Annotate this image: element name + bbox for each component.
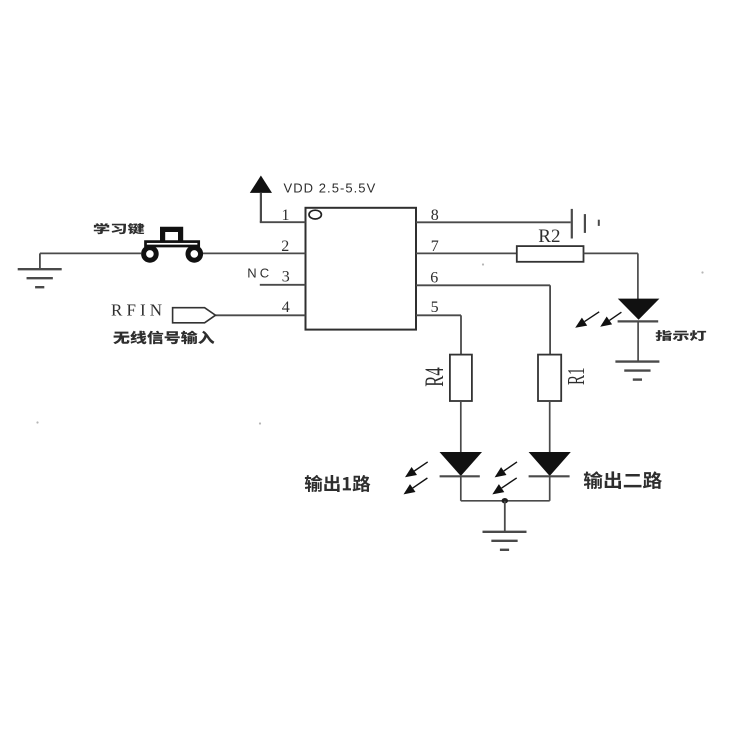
wire R4 to LED D1 bbox=[460, 401, 462, 452]
resistor R1 bbox=[538, 355, 561, 401]
svg-text:1: 1 bbox=[282, 207, 290, 224]
svg-text:2: 2 bbox=[281, 238, 289, 255]
capacitor C1 bars bbox=[572, 209, 599, 239]
RFIN input tag bbox=[173, 308, 216, 323]
wire bus to ground bbox=[504, 501, 506, 532]
svg-text:3: 3 bbox=[282, 269, 290, 286]
wire bottom bus bbox=[461, 500, 550, 502]
LED D1 output1 bbox=[440, 452, 483, 476]
wire pin4 to RFIN tag bbox=[215, 314, 305, 316]
label 无线信号输入 bbox=[113, 331, 214, 345]
svg-text:NC: NC bbox=[247, 266, 272, 281]
resistor R2 bbox=[517, 246, 584, 262]
LED D1 light arrows bbox=[404, 462, 428, 495]
ground indicator bbox=[615, 362, 659, 380]
wire R1 to LED D2 bbox=[549, 401, 551, 452]
wire pin3 stub bbox=[260, 284, 306, 286]
LED D2 output2 bbox=[529, 452, 571, 476]
wire ground drop left bbox=[39, 253, 41, 269]
pushbutton S1 bbox=[144, 229, 201, 260]
svg-text:R4: R4 bbox=[420, 367, 449, 387]
IC U1 body bbox=[306, 208, 417, 330]
svg-text:RFIN: RFIN bbox=[111, 301, 166, 320]
wire pin1 to power bbox=[260, 221, 306, 223]
wire LED D2 down bbox=[549, 476, 551, 501]
svg-text:R2: R2 bbox=[538, 226, 560, 247]
label 输出二路 bbox=[584, 471, 662, 489]
svg-text:4: 4 bbox=[282, 299, 290, 316]
wire pin5 to R4 bbox=[416, 315, 461, 355]
wire LED D1 down bbox=[460, 476, 462, 501]
svg-text:7: 7 bbox=[431, 238, 439, 255]
label 指示灯 bbox=[656, 330, 707, 341]
ground bottom bbox=[483, 532, 527, 550]
junction dot bbox=[502, 498, 508, 503]
svg-text:8: 8 bbox=[431, 207, 439, 224]
power symbol VDD arrow bbox=[250, 176, 272, 223]
wire pin2 to button bbox=[203, 252, 306, 254]
wire LED D3 to ground bbox=[637, 321, 639, 361]
wire ground to button bbox=[40, 252, 141, 254]
ground left bbox=[18, 269, 62, 287]
svg-text:VDD 2.5-5.5V: VDD 2.5-5.5V bbox=[284, 181, 377, 196]
LED D3 indicator bbox=[618, 299, 660, 322]
svg-text:R1: R1 bbox=[563, 367, 590, 385]
wire R2 to LED corner bbox=[584, 253, 638, 299]
wire pin8 to cap bbox=[416, 221, 571, 223]
LED D3 light arrows bbox=[575, 312, 621, 328]
label 输出1路 bbox=[305, 475, 371, 492]
wire pin7 to R2 bbox=[416, 252, 517, 254]
LED D2 light arrows bbox=[492, 462, 517, 495]
svg-text:6: 6 bbox=[430, 269, 438, 286]
wire pin6 to R1 bbox=[416, 285, 550, 355]
resistor R4 bbox=[450, 355, 472, 401]
label 学习键 bbox=[94, 223, 145, 234]
svg-text:5: 5 bbox=[431, 299, 439, 316]
